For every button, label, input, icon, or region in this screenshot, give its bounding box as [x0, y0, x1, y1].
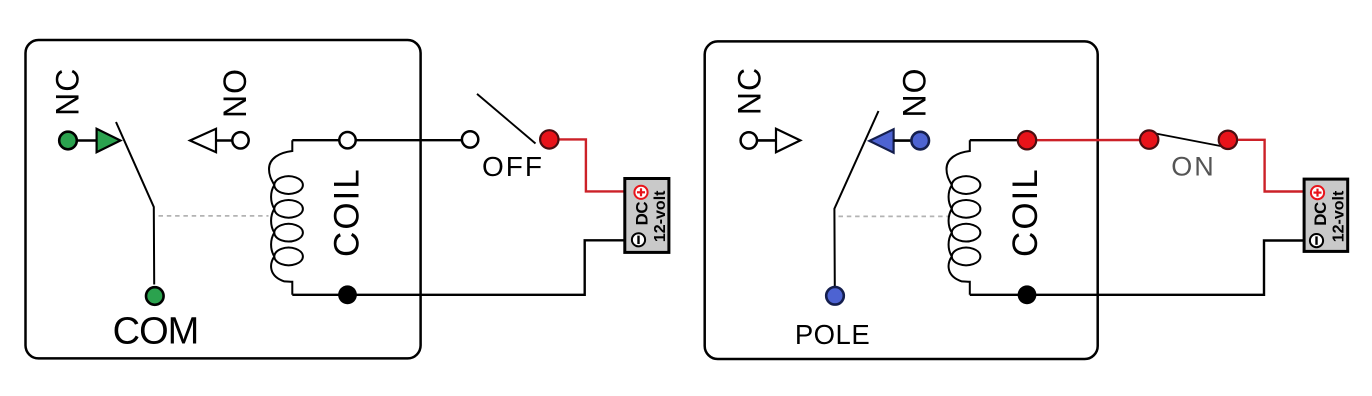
svg-text:ON: ON: [1171, 152, 1216, 182]
POLE terminal dot (blue): [826, 287, 844, 305]
svg-text:POLE: POLE: [795, 319, 870, 350]
NO terminal dot (blue): [911, 132, 929, 150]
NO terminal circle (open): [232, 132, 248, 148]
svg-text:NO: NO: [217, 68, 253, 118]
ON switch left terminal (red dot): [1140, 130, 1158, 148]
svg-text:DC: DC: [1311, 202, 1330, 226]
coil top terminal (open circle): [339, 132, 355, 148]
battery B1 plus terminal symbol: [634, 186, 647, 199]
NO contact arrow (blue): [869, 129, 893, 153]
wire NO arrow to NO dot (relay 2): [894, 139, 920, 142]
wire NC dot to NC arrow: [68, 139, 97, 142]
svg-text:12-volt: 12-volt: [652, 190, 669, 242]
COM terminal dot (green): [146, 287, 164, 305]
svg-text:DC: DC: [633, 202, 652, 226]
mechanical linkage (dashed) relay 2: [839, 215, 950, 217]
svg-text:12-volt: 12-volt: [1331, 190, 1348, 242]
mechanical linkage (dashed) relay 1: [159, 215, 269, 217]
red wire ON switch to battery plus: [1228, 140, 1304, 192]
coil bottom terminal (black dot): [338, 285, 357, 304]
battery B1 body (DC 12-volt): [625, 179, 669, 253]
coil bottom terminal (black dot, relay 2): [1018, 285, 1037, 304]
NC contact arrow (open, relay 2): [776, 129, 800, 152]
svg-text:NC: NC: [732, 67, 768, 115]
relay 1 body outline: [26, 40, 421, 358]
red wire OFF switch to battery plus: [549, 139, 625, 191]
battery B1 minus terminal symbol: [632, 233, 645, 246]
OFF switch right terminal (red dot): [540, 130, 558, 148]
coil winding (relay 1): [269, 140, 303, 295]
wire coil top to OFF switch: [292, 139, 462, 141]
wire NC circle to NC arrow (relay 2): [749, 139, 776, 142]
NC terminal dot (green): [59, 132, 77, 150]
svg-text:NO: NO: [897, 68, 933, 118]
battery B2 plus terminal symbol: [1311, 186, 1324, 199]
battery B2 body (DC 12-volt): [1304, 179, 1348, 251]
coil top terminal (red dot, relay 2): [1018, 131, 1036, 149]
armature lever (relay 2): [834, 111, 878, 287]
armature lever (relay 1): [116, 122, 154, 285]
red wire coil terminal to ON switch: [1027, 139, 1149, 142]
relay 2 body outline: [705, 41, 1098, 359]
coil winding (relay 2): [947, 140, 981, 295]
ON switch lever (closed): [1153, 133, 1223, 147]
OFF switch left terminal (open circle): [462, 131, 478, 147]
NO contact arrow (open): [190, 129, 216, 152]
svg-text:OFF: OFF: [482, 151, 544, 182]
OFF switch lever (open): [477, 94, 536, 144]
wire coil bottom to battery minus (black, relay 2): [970, 241, 1304, 295]
svg-text:COIL: COIL: [327, 167, 366, 257]
ON switch right terminal (red dot): [1219, 131, 1237, 149]
svg-text:COM: COM: [113, 311, 199, 353]
NC contact arrow (green): [97, 129, 121, 152]
battery B2 minus terminal symbol: [1310, 234, 1323, 247]
wire coil bottom to battery minus (black): [292, 240, 625, 294]
wire coil top to coil terminal (relay 2): [970, 139, 1027, 141]
svg-text:COIL: COIL: [1006, 167, 1045, 257]
wire NO arrow to NO terminal: [216, 139, 240, 142]
svg-text:NC: NC: [50, 68, 86, 116]
NC terminal circle (open, relay 2): [741, 132, 757, 148]
